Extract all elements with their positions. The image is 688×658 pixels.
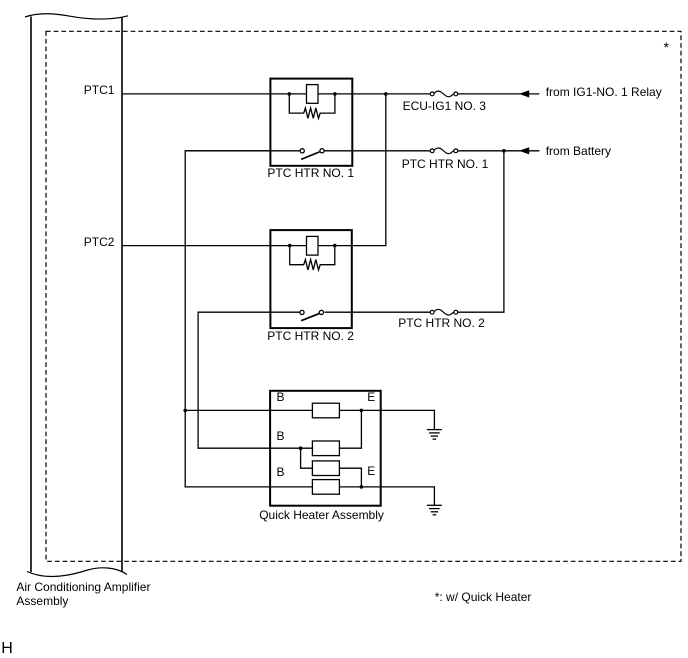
wire Quick Heater B row 1 bbox=[185, 409, 312, 411]
dashed harness border bbox=[46, 31, 681, 561]
junction dot relay U1 coil left bbox=[288, 92, 292, 96]
label fuse PTC HTR NO. 2 bbox=[398, 317, 485, 329]
ground G2 bbox=[427, 505, 442, 515]
relay U2 switch blade bbox=[301, 314, 319, 321]
Quick Heater Assembly box bbox=[270, 391, 381, 506]
pin label B row2 bbox=[277, 430, 285, 442]
wire line B: relay U2 switch to Quick Heater B row 2 bbox=[198, 312, 312, 448]
relay U2 switch contacts bbox=[300, 310, 304, 314]
relay U2 parallel resistor bbox=[290, 246, 335, 270]
junction dot node A on PTC1 row bbox=[384, 92, 388, 96]
wire PTC1 row (node PTC1 to fuse) bbox=[122, 93, 430, 95]
wire line A: relay U1 switch to Quick Heater B rows bbox=[185, 151, 312, 487]
junction dot battery node bbox=[502, 149, 506, 153]
label Quick Heater Assembly bbox=[259, 509, 384, 521]
fuse PTC HTR NO. 1 bbox=[430, 148, 457, 154]
heater resistor R1 bbox=[312, 403, 339, 418]
heater resistor R3 bbox=[312, 461, 339, 476]
pin label B row1 bbox=[277, 391, 285, 403]
note asterisk top right bbox=[664, 40, 669, 54]
heater resistor R2 bbox=[312, 441, 339, 456]
wire row1 resistor to E node bbox=[339, 410, 434, 429]
wire row2 to row3 link bbox=[301, 448, 313, 468]
pin label E row3 bbox=[367, 465, 375, 477]
junction dot row2 B bbox=[299, 446, 303, 450]
pin label E row1 bbox=[367, 391, 375, 403]
junction dot row1 E bbox=[360, 409, 364, 413]
note *: w/ Quick Heater bbox=[435, 591, 532, 603]
junction dot row4 E bbox=[360, 485, 364, 489]
junction dot relay U2 coil left bbox=[288, 244, 292, 248]
label PTC2 bbox=[84, 236, 115, 248]
ground G1 bbox=[427, 430, 442, 440]
label PTC1 bbox=[84, 84, 115, 96]
wire fuse PTC HTR NO. 2 to battery node (vertical x=504.2) bbox=[458, 151, 504, 312]
label Air Conditioning Amplifier Assembly bbox=[16, 580, 150, 609]
wire fuse ECU-IG1 right segment to arrow bbox=[458, 93, 540, 95]
junction dot line A row 1 bbox=[183, 409, 187, 413]
wire row2 resistor right link up to row1 bbox=[339, 410, 361, 448]
relay U2 box PTC HTR NO. 2 bbox=[270, 230, 351, 328]
relay U2 coil bbox=[307, 236, 319, 255]
wire PTC2 row bbox=[122, 245, 352, 247]
arrow from Battery bbox=[519, 147, 529, 154]
wire relay U1 switch row (from line A to fuse) bbox=[185, 150, 300, 152]
label fuse PTC HTR NO. 1 bbox=[402, 158, 489, 170]
relay U1 switch blade bbox=[301, 152, 319, 160]
connector strip Air Conditioning Amplifier Assembly (left bar) bbox=[25, 14, 128, 577]
wire battery row segment after fuse bbox=[458, 150, 540, 152]
label relay U1 PTC HTR NO. 1 bbox=[267, 167, 354, 179]
wire node A: ECU-IG1 to relay U2 coil (vertical x=385.8) bbox=[352, 94, 386, 246]
wire row3 resistor right link down to row4 bbox=[339, 468, 361, 487]
junction dot relay U1 coil right bbox=[333, 92, 337, 96]
pin label B row3 bbox=[277, 466, 285, 478]
label relay U2 PTC HTR NO. 2 bbox=[267, 330, 354, 342]
relay U1 parallel resistor bbox=[289, 94, 335, 118]
relay U1 coil bbox=[307, 85, 319, 104]
relay U1 box PTC HTR NO. 1 bbox=[270, 79, 352, 166]
heater resistor R4 bbox=[312, 480, 339, 495]
wire relay U2 switch row left bbox=[270, 311, 300, 313]
fuse PTC HTR NO. 2 bbox=[430, 309, 457, 315]
wire relay U2 switch row right to fuse bbox=[325, 311, 431, 313]
wire row4 resistor to E node bbox=[339, 487, 434, 505]
relay U1 switch contacts bbox=[300, 149, 304, 153]
label fuse ECU-IG1 NO. 3 bbox=[403, 100, 486, 112]
junction dot relay U2 coil right bbox=[333, 244, 337, 248]
arrow from IG1-NO. 1 Relay bbox=[519, 90, 529, 97]
label from IG1-NO. 1 Relay bbox=[546, 86, 662, 98]
page marker H bbox=[1, 641, 13, 657]
label from Battery bbox=[546, 145, 611, 157]
fuse ECU-IG1 NO. 3 bbox=[430, 91, 457, 97]
